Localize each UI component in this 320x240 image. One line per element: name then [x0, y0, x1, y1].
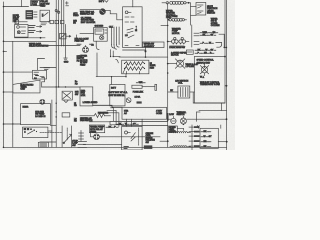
- svg-text:MOTOR: MOTOR: [171, 55, 179, 57]
- svg-text:LO MED HI: LO MED HI: [35, 116, 46, 118]
- wire horizontal y72: [4, 71, 33, 73]
- wire horizontal y41: [4, 40, 57, 42]
- node box: [15, 20, 19, 24]
- wire gauge labels: [77, 43, 81, 45]
- wire vertical x51.9: [51, 100, 53, 147]
- junction: [58, 86, 59, 87]
- svg-text:— BK — P —: — BK — P —: [106, 127, 119, 129]
- wire: [218, 141, 226, 143]
- svg-text:— W — GY: — W — GY: [201, 136, 212, 138]
- wire horizontal y124: [4, 123, 21, 125]
- wire drops: [126, 119, 128, 126]
- junction: [145, 56, 147, 58]
- relay K1: [26, 11, 33, 20]
- svg-text:FUSE LINK: FUSE LINK: [133, 92, 144, 94]
- svg-text:MTR: MTR: [81, 95, 86, 97]
- junction: [226, 141, 228, 143]
- horn H1: [171, 118, 176, 123]
- wire from motor: [100, 136, 161, 138]
- arrows: [37, 26, 42, 28]
- wire: [168, 118, 171, 120]
- switch S5: [64, 134, 72, 143]
- connector pins: [34, 11, 37, 13]
- connector hooks lower: [116, 59, 119, 62]
- blower fan box LL1: [21, 104, 51, 125]
- svg-text:FEED: FEED: [40, 5, 46, 7]
- connector hooks: [112, 45, 115, 48]
- junction: [3, 147, 5, 149]
- washer relay box: [89, 125, 104, 133]
- blower motor M3: [40, 99, 45, 104]
- switch box S2: [40, 10, 49, 21]
- wire y125.3: [50, 124, 56, 126]
- svg-text:— P —— BN — R —: — P —— BN — R —: [195, 52, 215, 54]
- junction: [125, 76, 126, 77]
- fuse holder: [132, 85, 142, 88]
- junction: [167, 41, 169, 43]
- wire y87 harness: [42, 86, 80, 88]
- wire coil right: [190, 91, 195, 93]
- relay K2: [62, 91, 72, 100]
- dark connector block: [78, 141, 87, 143]
- svg-text:FUSE: FUSE: [172, 16, 178, 18]
- svg-text:SW: SW: [146, 142, 149, 144]
- wire second left trunk: [12, 41, 14, 147]
- svg-text:(SERVO) UNIT: (SERVO) UNIT: [197, 62, 211, 64]
- connector column right bottom: [191, 125, 193, 150]
- coil row 2: [173, 146, 187, 147]
- svg-text:14 GA: 14 GA: [135, 96, 141, 99]
- wire corner right: [219, 34, 227, 47]
- svg-text:W △: W △: [200, 75, 204, 78]
- diode mark: [64, 101, 68, 103]
- svg-text:FEED: FEED: [73, 15, 79, 17]
- connector arrows: [67, 35, 71, 37]
- svg-text:GND: GND: [64, 62, 69, 64]
- wire vertical x61.3: [60, 0, 62, 46]
- svg-text:— BN ——: — BN ——: [201, 141, 212, 143]
- wire: [83, 144, 121, 146]
- timer box U4: [13, 80, 40, 93]
- wire: [197, 111, 200, 113]
- wire to switch: [189, 3, 191, 25]
- check mark: [105, 1, 108, 3]
- wiper trunk: [167, 3, 169, 147]
- junction: [136, 26, 137, 27]
- lamp L2: [55, 9, 57, 11]
- svg-text:BATT: BATT: [111, 87, 117, 90]
- fusible link F1: [162, 2, 166, 4]
- wire: [160, 140, 168, 142]
- lower fan box: [80, 87, 93, 106]
- wire right trunk: [226, 0, 228, 150]
- wire right inner trunk: [224, 0, 226, 58]
- wire: [80, 33, 94, 35]
- svg-text:— P —— W —: — P —— W —: [200, 42, 214, 44]
- condenser motor M5: [180, 118, 186, 124]
- junction: [167, 140, 169, 142]
- servo box: [169, 126, 178, 133]
- bottom right connector box: [200, 128, 218, 148]
- wire under box: [119, 56, 168, 58]
- junction: [12, 123, 13, 124]
- wire vertical x76.6: [76, 35, 78, 41]
- svg-text:— BK ——: — BK ——: [201, 131, 212, 133]
- marks bottom: [125, 45, 128, 47]
- switch contacts: [127, 28, 133, 30]
- junction: [224, 47, 225, 48]
- stepped wire bottom: [89, 122, 121, 125]
- junction: [167, 19, 169, 21]
- junction: [3, 41, 5, 43]
- label right of box: [143, 42, 165, 48]
- junction: [3, 6, 5, 8]
- generator G1: [80, 8, 100, 10]
- wire bottom: [15, 37, 46, 39]
- svg-text:THERMOSTAT & FAN: THERMOSTAT & FAN: [200, 83, 220, 86]
- wire vertical x63.8: [63, 0, 65, 46]
- junction: [3, 91, 5, 93]
- fuse F3 on wire: [33, 70, 47, 79]
- junction: [167, 63, 169, 65]
- svg-text:SW: SW: [75, 94, 78, 96]
- Y mark: [197, 126, 199, 127]
- wire top horizontal: [4, 6, 29, 8]
- svg-text:FEED: FEED: [80, 64, 86, 66]
- wire y119: [187, 118, 227, 120]
- wire horizontal y92: [4, 91, 13, 93]
- wire: [15, 21, 27, 23]
- wire bottom horizontal: [4, 146, 227, 148]
- svg-text:LOW: LOW: [169, 114, 174, 116]
- svg-text:COLUMN: COLUMN: [211, 25, 220, 27]
- motor in box: [204, 64, 206, 67]
- dark label rows: [29, 25, 35, 27]
- wire horizontal y45.5: [40, 45, 80, 47]
- junction: [3, 123, 5, 125]
- harness rows below: [110, 121, 168, 123]
- cam: [125, 131, 128, 134]
- junction: [3, 51, 5, 53]
- svg-text:FEED: FEED: [90, 132, 96, 134]
- batt hot box: [110, 84, 125, 106]
- wire vertical x56: [55, 0, 57, 147]
- svg-text:FUSE: FUSE: [31, 4, 37, 6]
- junction: [3, 71, 5, 73]
- wire tick: [113, 56, 120, 58]
- svg-text:LO: LO: [125, 35, 128, 37]
- bold feed wire: [93, 105, 122, 107]
- printed circuit box U3: [123, 7, 143, 48]
- bus box mid: [122, 107, 167, 119]
- wire resistor down: [125, 74, 127, 77]
- wire gen to box: [105, 10, 122, 19]
- switch contact: [42, 14, 44, 17]
- mark top: [36, 75, 39, 77]
- junction: [56, 86, 57, 87]
- svg-text:BAT V: BAT V: [99, 0, 105, 3]
- junction: [167, 72, 169, 74]
- junction: [111, 76, 112, 77]
- svg-text:1 PULSE: 1 PULSE: [186, 66, 195, 68]
- wire horizontal y76.7: [96, 76, 126, 78]
- terminal marks: [38, 142, 48, 147]
- wire: [141, 119, 143, 126]
- svg-text:RES: RES: [150, 67, 155, 69]
- upper fan motor M2: [83, 47, 89, 53]
- connector column: [191, 25, 193, 47]
- label above resistor: [123, 49, 146, 51]
- nested corner wires: [111, 108, 114, 121]
- wire stub: [161, 25, 168, 27]
- wire horizontal y67.5: [40, 67, 56, 69]
- inline resistor R2: [80, 115, 94, 117]
- junction: [224, 56, 226, 58]
- svg-text:HOT IN RUN BL: HOT IN RUN BL: [109, 95, 126, 97]
- svg-text:— BK —— GY —: — BK —— GY —: [200, 35, 217, 37]
- junction: [226, 118, 228, 120]
- wire left trunk: [3, 2, 5, 147]
- svg-text:MOTOR: MOTOR: [172, 33, 180, 35]
- wire z-step: [42, 78, 45, 88]
- svg-text:SWITCH: SWITCH: [207, 13, 215, 15]
- lamp L1: [125, 11, 128, 14]
- svg-text:SW: SW: [72, 145, 75, 147]
- svg-text:UNIT: UNIT: [20, 89, 25, 91]
- svg-text:FEED 12V: FEED 12V: [75, 41, 85, 43]
- junction: [188, 2, 190, 4]
- dashed vertical: [138, 128, 140, 146]
- junction: [56, 103, 57, 104]
- fuse lamp: [126, 98, 131, 103]
- capacitor C1: [65, 25, 67, 59]
- wire y110.4: [199, 109, 227, 111]
- connector box top: [31, 1, 40, 6]
- wire entering top: [132, 0, 134, 7]
- svg-text:— BK ——: — BK ——: [201, 146, 212, 148]
- wire vertical: [111, 77, 113, 85]
- svg-text:SWITCH: SWITCH: [177, 114, 185, 116]
- blower resistor R1: [122, 60, 149, 74]
- dashed switch area: [40, 132, 62, 134]
- wire coil left: [168, 91, 178, 93]
- radio suppression box: [194, 57, 225, 104]
- svg-text:— BK — W — — GY —: — BK — W — — GY —: [116, 124, 139, 126]
- connector ladder verticals: [111, 27, 113, 45]
- wire to motor: [168, 63, 177, 65]
- svg-text:GEN/VOLT IND: GEN/VOLT IND: [80, 14, 94, 16]
- junction: [226, 85, 228, 87]
- svg-text:GAUGES: GAUGES: [95, 25, 104, 28]
- coil row 1: [169, 132, 172, 134]
- wire vertical: [220, 125, 222, 128]
- terminal box LL2: [23, 127, 48, 138]
- svg-text:LOWER SPEED: LOWER SPEED: [83, 102, 98, 104]
- wire vertical x58.7: [58, 0, 60, 87]
- wire: [40, 141, 56, 143]
- fuse F4: [44, 67, 50, 69]
- switch diagonals: [131, 133, 135, 139]
- svg-text:BATT HOT AT ALL: BATT HOT AT ALL: [109, 91, 129, 94]
- cross marks: [66, 2, 69, 4]
- connector box: [186, 50, 193, 54]
- washer motor M4: [94, 134, 100, 140]
- wire verticals mid: [110, 50, 112, 57]
- junction: [65, 86, 66, 87]
- wire drop top: [20, 0, 22, 7]
- wire vertical x97: [96, 53, 98, 77]
- cruise control box: [122, 126, 142, 150]
- terminal row: [50, 20, 53, 23]
- pin blobs: [194, 126, 200, 128]
- wire corner right mid: [193, 93, 225, 104]
- diode D1: [60, 34, 67, 39]
- wire below box: [95, 41, 97, 46]
- relay box K3: [15, 25, 29, 38]
- svg-text:SELECTOR SWITCH: SELECTOR SWITCH: [29, 46, 49, 48]
- dark connector marks: [144, 145, 153, 149]
- svg-text:INST CLUSTER: INST CLUSTER: [81, 22, 96, 24]
- svg-text:BLWR: BLWR: [23, 107, 29, 109]
- multi-function switch S3: [196, 3, 206, 16]
- left edge box: [80, 131, 82, 142]
- wire corner: [38, 59, 45, 71]
- svg-text:CONN: CONN: [156, 113, 162, 115]
- wiper motor M1: [177, 60, 184, 67]
- instrument box U2: [94, 28, 108, 42]
- junction: [110, 56, 111, 57]
- svg-text:— W/R —: — W/R —: [136, 82, 146, 84]
- resistor small: [62, 113, 70, 117]
- junction: [167, 114, 169, 120]
